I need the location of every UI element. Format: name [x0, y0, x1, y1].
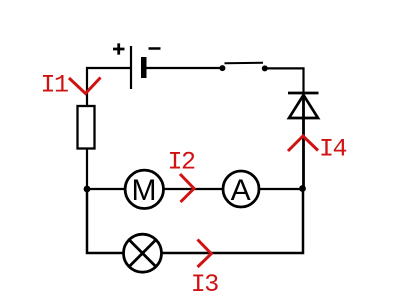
battery minus label: [149, 47, 161, 50]
wire ammeter to right junction: [259, 188, 303, 190]
svg-text:I2: I2: [168, 148, 196, 177]
svg-text:A: A: [231, 174, 251, 207]
lamp L1 cross: [129, 240, 156, 267]
diode D1 cathode bar: [288, 92, 319, 95]
wire left junction to motor: [87, 188, 125, 190]
battery plus label: [113, 43, 125, 54]
current arrow I2 chevron: [180, 174, 194, 202]
svg-text:I4: I4: [319, 135, 347, 164]
diode D1 triangle: [289, 95, 318, 118]
current arrow I1 chevron: [69, 78, 101, 94]
battery B1 positive plate: [130, 46, 132, 89]
motor U1 circle: [125, 170, 163, 208]
wire battery to switch: [147, 67, 221, 69]
svg-text:I3: I3: [191, 270, 219, 299]
wire right junction to bottom-right corner and along bottom: [162, 189, 304, 254]
svg-text:I1: I1: [41, 71, 69, 100]
lamp L1 circle: [124, 234, 162, 272]
wire switch to top-right corner and down to diode: [267, 68, 304, 93]
wire top-left horizontal from corner to battery: [87, 67, 130, 69]
wire through diode down to right junction: [302, 94, 305, 189]
svg-text:M: M: [132, 174, 157, 207]
switch S1 lever: [225, 62, 264, 64]
wire motor to ammeter: [164, 188, 224, 190]
battery B1 negative plate: [141, 57, 147, 78]
wire left junction down to bottom-left corner and to lamp: [87, 189, 124, 253]
ammeter U2 circle: [223, 171, 259, 207]
current arrow I3 chevron: [198, 240, 212, 268]
switch S1 right contact dot: [262, 65, 268, 71]
junction node left: [84, 186, 91, 193]
current arrow I4 chevron: [288, 136, 318, 151]
wire left vertical from top corner to resistor: [86, 67, 88, 106]
junction node right: [299, 185, 306, 192]
switch S1 left contact dot: [219, 65, 225, 71]
wire resistor to left junction: [86, 149, 88, 190]
resistor R1: [78, 106, 95, 149]
